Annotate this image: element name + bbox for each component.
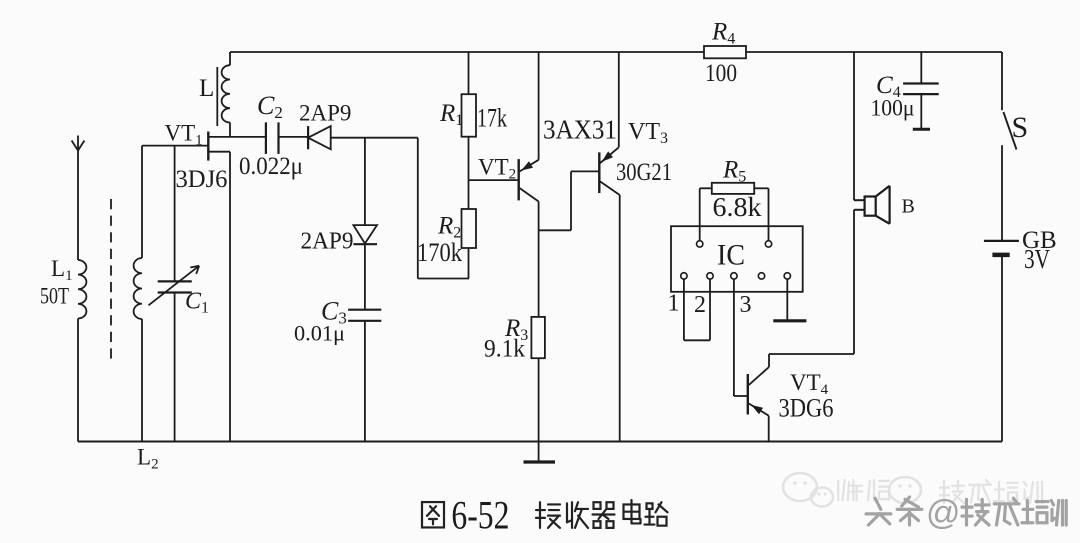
antenna [72, 136, 85, 261]
wire: R2 bottom lead [468, 248, 470, 279]
battery GB 3V [984, 227, 1057, 274]
capacitor C3 0.01u [294, 297, 381, 346]
wire: bottom rail [78, 441, 1002, 443]
wire: L bottom lead [229, 123, 231, 137]
pin 3 [731, 273, 752, 318]
wire: R5 right lead to IC pin [754, 188, 768, 241]
inductor L2 [134, 258, 159, 473]
wire: VT2 emitter to top rail [538, 52, 540, 160]
wire: L2 bottom lead [141, 319, 143, 442]
transistor VT1 3DJ6 [165, 121, 231, 194]
pin 1 [668, 273, 688, 317]
resistor R1 17k [439, 94, 507, 137]
wire: gate wire VT1 [142, 145, 208, 147]
pin 2 [694, 273, 713, 318]
wire: jumper pin1 to pin2 [684, 279, 710, 340]
svg-text:3V: 3V [1024, 244, 1050, 274]
svg-text:IC: IC [717, 239, 745, 272]
svg-text:L: L [199, 75, 214, 102]
wire: base node to R2 [468, 180, 470, 209]
inductor L1 50T [40, 256, 86, 319]
wire: R5 left lead to IC pin [700, 188, 712, 241]
svg-text:R5: R5 [722, 157, 746, 186]
wire: C1 bottom lead [174, 293, 176, 442]
wire: shunt diode to C3 [364, 244, 366, 310]
watermark: faint 微信 text [838, 480, 889, 500]
op-amp U1 IC [671, 226, 803, 292]
resistor R3 9.1k [484, 315, 545, 363]
wire: C3 to bottom rail [364, 321, 366, 442]
caption: 图 6-52 接收器电路 [422, 493, 668, 538]
pin (IC top left) [697, 241, 703, 247]
svg-text:B: B [902, 196, 915, 218]
svg-text:2AP9: 2AP9 [299, 101, 351, 126]
svg-text:3DJ6: 3DJ6 [176, 166, 228, 193]
ground (IC pin5) [773, 279, 806, 321]
svg-text:L1: L1 [51, 256, 73, 284]
pin (IC top right) [765, 241, 771, 247]
capacitor C1 (variable) [149, 266, 210, 317]
svg-text:@: @ [926, 494, 961, 532]
svg-text:100μ: 100μ [871, 96, 915, 121]
wire: R1 to VT2 base [469, 137, 519, 180]
ferrite core (dashed) [110, 199, 112, 361]
svg-text:VT3: VT3 [628, 119, 668, 147]
pin 4 [758, 273, 764, 279]
svg-text:C2: C2 [257, 91, 283, 122]
svg-text:2AP9: 2AP9 [301, 229, 354, 255]
watermark: 头条@技成培训 [866, 494, 1066, 532]
wire: detector output jog to R2 [418, 138, 469, 279]
svg-text:50T: 50T [40, 284, 69, 309]
svg-text:0.022μ: 0.022μ [239, 153, 303, 180]
wire: top rail to R1 [468, 52, 470, 94]
resistor R5 6.8k [712, 157, 762, 223]
wire: antenna lead to bottom rail [77, 319, 79, 442]
inductor L [199, 65, 230, 126]
transistor VT2 3AX31 [478, 115, 617, 202]
wire: C2 to diode [279, 136, 309, 138]
svg-text:3AX31: 3AX31 [543, 115, 617, 145]
svg-text:VT1: VT1 [165, 121, 203, 149]
watermark: faint 技成培训 outline [940, 480, 1042, 503]
wire: battery to bottom rail [1001, 255, 1003, 442]
wire: top rail right corner [1001, 52, 1003, 110]
wire: switch to battery [1001, 145, 1003, 241]
resistor R4 100 [704, 19, 746, 88]
pin 5 [784, 273, 790, 279]
svg-text:3: 3 [740, 292, 752, 318]
wire: top rail to speaker [853, 52, 855, 200]
svg-text:S: S [1012, 111, 1029, 144]
transistor VT3 30G21 [599, 119, 672, 195]
svg-text:C1: C1 [185, 289, 209, 317]
wire: VT3 emitter to top rail [618, 52, 620, 147]
svg-text:170k: 170k [417, 238, 462, 267]
wire: VT4 emitter to bottom rail [768, 416, 770, 442]
wire: L2 top lead [141, 146, 143, 258]
diode 2AP9 (shunt) [301, 225, 378, 254]
svg-text:100: 100 [705, 60, 737, 87]
wire: top rail [230, 51, 1002, 53]
wire: VT2 collector to VT3 base [539, 171, 600, 230]
resistor R2 170k [417, 209, 476, 267]
svg-text:R1: R1 [439, 100, 463, 129]
wire: R3 to bottom rail [538, 358, 540, 441]
wire: top rail left corner to L [229, 52, 231, 65]
wire: diode output line [331, 137, 418, 139]
svg-text:R4: R4 [711, 19, 735, 48]
watermark: wechat bubbles [783, 473, 921, 507]
svg-text:17k: 17k [477, 104, 507, 133]
ground (below R3) [524, 442, 556, 463]
svg-text:L2: L2 [137, 445, 159, 473]
svg-text:VT2: VT2 [478, 155, 516, 183]
wire: VT1 source to bottom rail [229, 152, 231, 442]
wire: VT4 collector to speaker [769, 210, 854, 367]
wire: top rail to C4 [920, 52, 922, 84]
wire: VT1 drain to C2 [230, 136, 266, 138]
svg-text:30G21: 30G21 [616, 159, 672, 186]
svg-text:6-52: 6-52 [451, 493, 509, 538]
diode 2AP9 (series) [299, 101, 351, 150]
switch S [1003, 111, 1028, 150]
wire: VT3 collector to bottom rail [619, 195, 621, 442]
svg-text:2: 2 [694, 292, 706, 318]
wire: C1 top lead [174, 146, 176, 282]
capacitor C2 0.022u [239, 91, 303, 180]
wire: shunt diode top lead [364, 138, 366, 225]
svg-text:1: 1 [668, 291, 680, 317]
svg-text:6.8k: 6.8k [713, 192, 763, 222]
speaker B [854, 186, 915, 224]
svg-text:0.01μ: 0.01μ [294, 321, 345, 346]
transistor VT4 3DG6 [748, 367, 834, 423]
wire: pin3 to VT4 base [734, 279, 748, 396]
svg-text:9.1k: 9.1k [484, 336, 525, 363]
capacitor C4 100u [871, 72, 939, 129]
wire: collector node to R3 [538, 230, 540, 317]
svg-text:3DG6: 3DG6 [779, 394, 834, 423]
